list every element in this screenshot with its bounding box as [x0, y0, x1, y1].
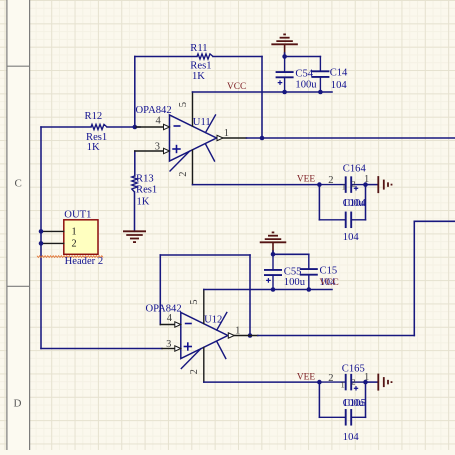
ground right of C165	[377, 374, 379, 391]
svg-text:5: 5	[178, 102, 189, 107]
wire: R12 input	[41, 126, 91, 128]
op-amp U11 pin 1 output arrow	[217, 135, 223, 140]
svg-text:VEE: VEE	[297, 175, 315, 185]
svg-text:VCC: VCC	[320, 278, 339, 288]
node: output junction	[260, 136, 265, 141]
svg-text:R13: R13	[136, 174, 154, 185]
svg-text:1: 1	[342, 181, 346, 191]
svg-text:OUT1: OUT1	[64, 210, 91, 221]
wire: VEE rail from pin 2	[193, 184, 320, 186]
wire: bypass loop left vertical bottom	[318, 382, 320, 417]
connector OUT1 body	[64, 220, 98, 255]
node: VEE junction right bottom	[363, 380, 368, 385]
wire: VEE rail from U12 pin 2	[204, 381, 320, 383]
wire: bypass loop left vertical	[318, 185, 320, 220]
resistor R11	[197, 54, 213, 59]
border zone divider upper	[7, 65, 30, 67]
op-amp U12 minus sign	[185, 323, 192, 325]
wire: VCC rail to pin 5	[193, 91, 321, 93]
svg-text:Res1: Res1	[190, 61, 211, 72]
svg-text:1K: 1K	[192, 71, 205, 82]
op-amp U12 pin 4 arrow	[175, 322, 181, 327]
op-amp U12 pin 5 (V+) stub	[203, 290, 205, 324]
op-amp U11 plus sign	[172, 148, 180, 150]
wire: VCC rail stub bottom	[309, 289, 332, 291]
wire: to ground right bottom	[366, 381, 378, 383]
capacitor C54 (polarized 100u)	[284, 57, 286, 73]
op-amp U12 power diagonal bottom-left	[181, 349, 201, 369]
node: U12 output junction	[248, 333, 253, 338]
node: C55 top junction	[271, 252, 276, 257]
svg-text:C54: C54	[295, 69, 313, 80]
op-amp U12 power diagonal top	[217, 313, 227, 331]
op-amp U11 power diagonal top	[206, 115, 216, 133]
svg-text:Res1: Res1	[136, 185, 157, 196]
svg-text:100u: 100u	[295, 79, 317, 90]
op-amp U12 pin 3 arrow	[175, 346, 181, 351]
op-amp U12 body	[181, 313, 228, 359]
svg-text:104: 104	[331, 80, 348, 91]
node: C55 bottom junction	[271, 287, 276, 292]
svg-text:2: 2	[328, 373, 333, 384]
node: C14 bottom junction	[318, 90, 323, 95]
svg-text:1K: 1K	[137, 196, 150, 207]
svg-text:1: 1	[341, 380, 345, 390]
resistor R13	[132, 176, 137, 192]
svg-text:C55: C55	[284, 266, 302, 277]
wire: U12 feedback top	[160, 254, 250, 256]
svg-text:C: C	[15, 178, 22, 190]
wire: feedback left vertical	[134, 57, 136, 128]
wire: top rail C55-C15	[273, 253, 309, 255]
svg-text:C104: C104	[343, 198, 367, 209]
op-amp U11 pin 2 (V-) stub	[192, 150, 194, 185]
svg-text:104: 104	[343, 232, 360, 243]
svg-text:1: 1	[72, 226, 77, 237]
node: VEE junction left bottom	[317, 380, 322, 385]
wire: to ground right	[366, 184, 378, 186]
svg-text:2: 2	[178, 172, 189, 177]
node: bus to pin 2	[39, 241, 44, 246]
op-amp U11 pin 1 stub	[223, 137, 247, 139]
wire: feedback top right	[213, 56, 262, 58]
wire: bypass loop right vertical bottom	[365, 382, 367, 417]
svg-text:100u: 100u	[284, 277, 306, 288]
C165 plus mark	[354, 387, 358, 389]
compile-error squiggle	[37, 256, 103, 258]
capacitor C165 (polarized)	[319, 381, 345, 383]
node: bus to pin 1	[39, 229, 44, 234]
capacitor C15	[308, 254, 310, 269]
op-amp U12 pin 2 (V-) stub	[203, 348, 205, 383]
svg-text:R12: R12	[85, 111, 103, 122]
wire: U12 feedback right vertical	[249, 255, 251, 336]
svg-text:VCC: VCC	[227, 82, 246, 92]
wire: VCC rail to U12 pin 5	[204, 289, 309, 291]
svg-text:2: 2	[72, 239, 77, 250]
op-amp U11 body	[170, 115, 217, 161]
svg-text:3: 3	[155, 142, 160, 153]
wire: U11 output to right edge	[247, 137, 455, 139]
node: VEE junction right	[363, 182, 368, 187]
svg-text:2: 2	[351, 178, 355, 188]
wire: bypass loop right vertical	[365, 185, 367, 220]
svg-text:C164: C164	[343, 164, 367, 175]
wire: pin 3 connection	[135, 150, 164, 152]
wire: output riser	[413, 221, 415, 335]
svg-text:1K: 1K	[87, 142, 100, 153]
C164 plus mark	[354, 187, 358, 189]
op-amp U11 pin 4 arrow	[164, 124, 170, 129]
wire: U12 pin 3 connection	[162, 348, 175, 350]
wire: R12 to inverting node	[107, 126, 140, 128]
svg-text:2: 2	[351, 377, 355, 387]
capacitor C55 (polarized 100u)	[272, 254, 274, 270]
svg-text:4: 4	[167, 313, 173, 324]
svg-text:OPA842: OPA842	[136, 105, 172, 116]
ground above C54 (power ground)	[271, 43, 298, 45]
capacitor C105 (bypass)	[319, 416, 345, 418]
wire: U12 pin 4 connection	[160, 324, 175, 326]
capacitor C164 (polarized)	[319, 184, 345, 186]
node: VEE junction left	[317, 182, 322, 187]
OUT1 pin 1 wire	[41, 230, 64, 232]
wire: U12 output run	[258, 335, 415, 337]
op-amp U12 pin 1 output arrow	[228, 333, 234, 338]
svg-text:3: 3	[166, 339, 171, 350]
wire: ground stem	[284, 44, 286, 54]
wire: feedback top left	[135, 56, 197, 58]
capacitor C14	[319, 57, 321, 72]
wire: feedback right vertical	[261, 57, 263, 139]
wire: input bus vertical	[40, 127, 42, 349]
op-amp U12 pin 1 stub	[234, 335, 257, 337]
ground below R13	[123, 230, 146, 232]
wire: R13 to ground	[134, 192, 136, 231]
svg-text:5: 5	[189, 299, 200, 304]
wire: R13 top vertical	[134, 151, 136, 176]
svg-text:C14: C14	[330, 68, 348, 79]
svg-text:1: 1	[224, 128, 229, 139]
op-amp U11 pin 3 arrow	[164, 148, 170, 153]
svg-text:Header 2: Header 2	[65, 256, 104, 267]
svg-text:4: 4	[156, 116, 162, 127]
wire: U12 feedback left vertical	[159, 255, 161, 325]
ground right of C164	[377, 176, 379, 193]
wire: bus to U12 pin 3	[41, 348, 162, 350]
sheet border strip	[8, 0, 30, 450]
svg-text:104: 104	[343, 432, 360, 443]
op-amp U11 minus sign	[174, 125, 181, 127]
svg-text:C105: C105	[343, 398, 366, 409]
svg-text:1: 1	[235, 326, 240, 337]
svg-text:2: 2	[189, 369, 200, 374]
resistor R12	[91, 124, 107, 129]
svg-text:U11: U11	[193, 117, 211, 128]
node: C54 bottom junction	[282, 90, 287, 95]
svg-text:R11: R11	[190, 43, 207, 54]
node: inverting input junction	[133, 125, 138, 130]
op-amp U12 power diagonal bottom-right	[217, 342, 226, 359]
op-amp U11 power diagonal bottom-right	[206, 144, 215, 161]
capacitor C104 (bypass)	[319, 219, 345, 221]
wire: ground stem bottom	[272, 242, 274, 252]
node: C54 top junction	[282, 54, 287, 59]
svg-text:2: 2	[328, 175, 333, 186]
wire: VCC rail stub	[320, 91, 332, 93]
svg-text:C15: C15	[320, 265, 338, 276]
border zone divider lower	[7, 285, 30, 287]
wire: top rail C54-C14	[285, 56, 321, 58]
svg-text:VEE: VEE	[297, 372, 315, 382]
svg-text:C165: C165	[342, 363, 365, 374]
op-amp U11 power diagonal bottom-left	[170, 151, 190, 171]
node: C15 bottom junction	[307, 287, 312, 292]
wire: output to right edge	[414, 220, 455, 222]
op-amp U11 pin 5 (V+) stub	[192, 92, 194, 126]
OUT1 pin 2 wire	[41, 242, 64, 244]
ground above C55 (power ground)	[260, 241, 287, 243]
svg-text:U12: U12	[204, 315, 222, 326]
svg-text:OPA842: OPA842	[146, 303, 182, 314]
svg-text:D: D	[14, 398, 22, 410]
op-amp U12 plus sign	[184, 346, 192, 348]
wire: pin 4 connection	[135, 126, 164, 128]
